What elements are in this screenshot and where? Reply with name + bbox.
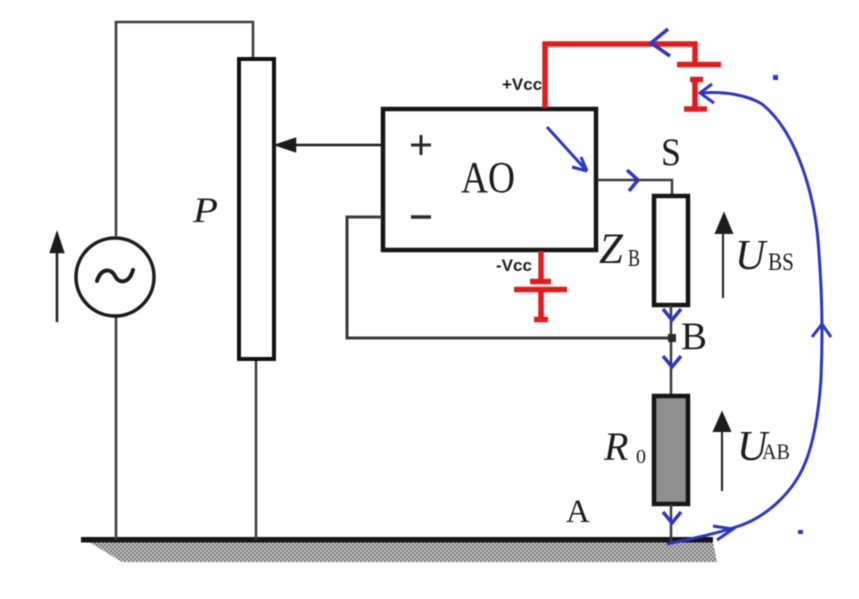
svg-text:A: A (566, 494, 590, 530)
potentiometer P (239, 59, 274, 359)
svg-text:AB: AB (762, 439, 790, 464)
battery B1 (+Vcc) (677, 65, 721, 110)
wire (670, 504, 673, 542)
source V1 (76, 238, 154, 316)
current return curve (667, 92, 822, 544)
svg-text:+Vcc: +Vcc (502, 75, 542, 94)
arrowhead on return curve bottom (713, 526, 733, 540)
battery B2 (-Vcc) (514, 282, 567, 320)
feedback wire (347, 217, 671, 338)
arrowhead on return curve middle (812, 324, 831, 337)
svg-text:R: R (603, 424, 628, 469)
stray dot (773, 75, 778, 80)
svg-text:BS: BS (768, 249, 794, 276)
stray dot (798, 530, 803, 534)
svg-text:P: P (192, 190, 218, 230)
output wire to node S (597, 180, 672, 195)
svg-text:S: S (661, 131, 681, 174)
current chevron above node A (663, 512, 681, 523)
pin - (411, 215, 431, 219)
svg-text:AO: AO (461, 153, 515, 202)
current chevron on +Vcc wire (651, 29, 670, 56)
svg-text:-Vcc: -Vcc (496, 256, 532, 275)
current chevron on output wire (627, 170, 638, 191)
impedance ZB (654, 196, 688, 305)
junction at node B (668, 334, 676, 342)
arrowhead on return curve top (700, 84, 714, 103)
svg-text:B: B (628, 246, 640, 272)
svg-text:Z: Z (599, 226, 624, 273)
svg-text:0: 0 (636, 446, 646, 468)
op-amp U1 (AO) (383, 109, 596, 250)
current chevron below ZB (663, 309, 681, 320)
wire (116, 22, 253, 236)
ground (89, 542, 717, 562)
svg-text:B: B (681, 315, 707, 358)
-Vcc supply wire (538, 251, 544, 281)
arrow UBS (716, 214, 732, 298)
+Vcc supply wire (545, 44, 695, 108)
resistor R0 (654, 396, 688, 504)
wire (255, 361, 258, 540)
pin + (411, 135, 431, 155)
current chevron below node B (663, 356, 681, 367)
source V1 arrow (51, 234, 63, 322)
wire (115, 316, 118, 540)
arrow UAB (714, 413, 730, 491)
svg-text:U: U (735, 233, 768, 279)
current arrow inside op-amp (547, 127, 587, 171)
wire (670, 305, 673, 396)
wiper wire to op-amp (277, 139, 382, 151)
